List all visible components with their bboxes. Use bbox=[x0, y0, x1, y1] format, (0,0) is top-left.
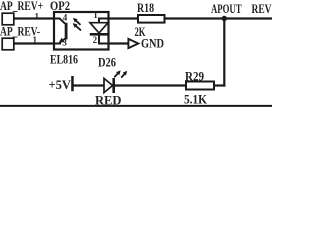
svg-text:2: 2 bbox=[93, 35, 98, 45]
phototransistor emitter lead bbox=[60, 38, 65, 42]
connector pad AP_REV+ bbox=[2, 13, 14, 25]
wire R18 to APOUT REV bbox=[165, 17, 273, 19]
sheet border line (bottom) bbox=[0, 105, 272, 107]
light arrow 2 (inside OP2) bbox=[74, 24, 81, 30]
svg-text:+5V: +5V bbox=[49, 77, 72, 92]
junction node bbox=[222, 16, 227, 21]
wire junction down to R29 bbox=[223, 19, 225, 87]
svg-text:EL816: EL816 bbox=[50, 52, 78, 67]
svg-text:1: 1 bbox=[93, 10, 98, 20]
ground GND arrow bbox=[128, 39, 138, 48]
phototransistor emitter wire to pin 3 bbox=[54, 43, 61, 45]
LED inside OP2: triangle bbox=[90, 23, 108, 33]
svg-text:APOUT: APOUT bbox=[211, 1, 242, 16]
svg-text:R18: R18 bbox=[137, 0, 154, 15]
svg-text:OP2: OP2 bbox=[50, 0, 70, 13]
wire AP_REV+ to OP2 pin 4 bbox=[14, 17, 55, 19]
optocoupler OP2 body bbox=[54, 12, 109, 50]
svg-text:1: 1 bbox=[35, 12, 40, 22]
phototransistor emitter arrowhead bbox=[59, 38, 65, 43]
wire +5V to D26 bbox=[73, 84, 105, 86]
svg-text:D26: D26 bbox=[98, 54, 116, 69]
LED D26 emission arrow 2 bbox=[121, 73, 126, 78]
LED inside OP2: cathode lead to pin 2 bbox=[99, 36, 108, 44]
LED D26 triangle bbox=[104, 78, 113, 92]
wire D26 to R29 bbox=[115, 84, 186, 86]
svg-text:5.1K: 5.1K bbox=[184, 91, 208, 106]
LED inside OP2: anode lead from pin 1 bbox=[99, 19, 108, 23]
wire OP2 pin 1 to R18 bbox=[109, 17, 139, 19]
phototransistor Q (inside OP2) collector lead bbox=[54, 19, 65, 24]
svg-text:R29: R29 bbox=[185, 68, 204, 83]
phototransistor base bar bbox=[65, 23, 68, 40]
LED D26 emission arrow 1 bbox=[114, 72, 119, 77]
power +5V bar bbox=[71, 76, 74, 91]
wire R29 to junction bbox=[214, 84, 225, 86]
light arrow 1 (inside OP2) bbox=[74, 19, 80, 25]
wire OP2 pin 2 to GND bbox=[109, 42, 129, 44]
svg-text:REV: REV bbox=[252, 1, 272, 16]
resistor R18 body bbox=[138, 15, 165, 23]
resistor R29 body bbox=[186, 82, 214, 90]
LED inside OP2: cathode bar bbox=[90, 33, 108, 36]
wire AP_REV- to OP2 pin 3 bbox=[14, 42, 55, 44]
connector pad AP_REV- bbox=[2, 38, 14, 50]
LED D26 cathode bar bbox=[112, 78, 115, 93]
svg-text:GND: GND bbox=[141, 36, 164, 51]
